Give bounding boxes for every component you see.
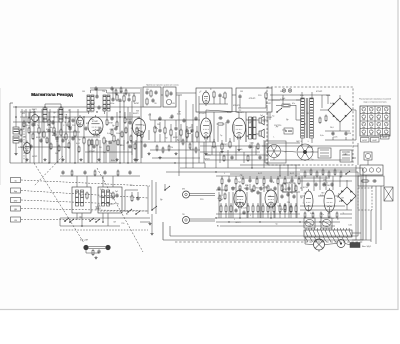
tube V6 small [166, 99, 171, 104]
output transformer Tr2 [249, 117, 257, 139]
label [22, 113, 26, 115]
wire: rec rails [216, 190, 300, 214]
capacitors group recamp extra [250, 188, 295, 199]
resistor R5 [60, 129, 62, 137]
node: antenna top [15, 116, 17, 118]
svg-text:6И1П: 6И1П [362, 140, 367, 142]
label 6И1П [88, 112, 94, 114]
wire: rail y165 seg [240, 164, 300, 166]
wire: main ground bus y163 [10, 162, 205, 164]
wire: right verticals [361, 186, 381, 244]
wire: left comb verticals 2 [88, 140, 136, 163]
svg-text:100к: 100к [48, 127, 52, 129]
label Вкл [362, 246, 372, 248]
wire: box links [161, 94, 182, 96]
resistor R24 [154, 126, 156, 134]
antenna coil L1 [13, 121, 19, 152]
wire: left drops to bus [39, 133, 84, 163]
svg-text:1М: 1М [240, 91, 243, 93]
resistors group bias band [304, 169, 342, 178]
ground g11 [148, 222, 151, 225]
wire: box D to psu [272, 99, 280, 101]
capacitor C25 [248, 144, 251, 149]
resistor R18 [150, 90, 152, 98]
switch contact S5 [151, 206, 157, 211]
wire: connector dashed fan 1 [21, 180, 150, 186]
svg-text:47к: 47к [155, 128, 158, 130]
resistor R25 [164, 127, 166, 135]
component box [358, 176, 384, 186]
connector socket Зв [11, 178, 21, 183]
wire: out drops extra [210, 120, 246, 142]
switch contact S7 [345, 171, 350, 175]
wire: switch verticals [148, 180, 165, 214]
wire: rail y174 seg [230, 173, 300, 175]
wire: ladder bottoms [155, 132, 197, 142]
wire: to gnd [151, 214, 153, 232]
wire: long dashed y211 [100, 210, 148, 212]
wire: diagonal dash C [34, 156, 63, 186]
resistor R16 [136, 127, 138, 135]
capacitor C7 [127, 97, 130, 102]
capacitor C1 [19, 138, 22, 143]
label [290, 173, 295, 175]
resistor R34 [92, 249, 94, 256]
resistor R27 [180, 129, 182, 137]
tube V7 oscillator [202, 90, 209, 104]
resistor R2 [38, 127, 40, 135]
resistor R7 [74, 130, 76, 138]
capacitor C24 [242, 210, 245, 215]
wire: ladder tops [155, 120, 197, 132]
wire: psu->recamp verticals [280, 165, 296, 176]
wire: trafo leads [296, 92, 312, 146]
capacitors group topband [94, 86, 114, 110]
svg-text:6П14П: 6П14П [255, 188, 262, 190]
capacitor C6 [118, 98, 121, 103]
svg-text:10н: 10н [323, 184, 326, 186]
wire: switch area rails [60, 218, 150, 230]
tube V4 6И1П converter [88, 115, 103, 137]
fuse Пр1 [276, 104, 296, 107]
capacitor C18 [218, 116, 223, 119]
capacitor C12 [169, 91, 172, 96]
resistor R26 [170, 129, 172, 137]
svg-text:6П14П: 6П14П [199, 113, 206, 115]
IF can L3 [59, 108, 63, 122]
svg-text:6К4П: 6К4П [32, 109, 37, 111]
svg-text:6И1П: 6И1П [96, 208, 102, 210]
wire: v-drop osc to rail [214, 112, 270, 142]
wire: link y160 right [205, 159, 268, 161]
switch contact S1 [64, 218, 69, 222]
resistor R22 [224, 92, 226, 100]
label value [78, 139, 81, 141]
wire: antenna feed [15, 107, 17, 121]
svg-text:БЛГ-24Н: БЛГ-24Н [80, 240, 89, 242]
wire: converter drops [89, 141, 114, 163]
resistor R4 [53, 127, 55, 135]
switch block with coils L8 L9 [98, 187, 122, 213]
label value [52, 135, 55, 137]
value labels scatter [30, 95, 335, 219]
svg-text:100к: 100к [277, 205, 281, 207]
svg-text:вид со стороны монтажа: вид со стороны монтажа [364, 102, 388, 104]
svg-text:1М: 1М [120, 91, 123, 93]
record amp cathode resistors group [220, 203, 297, 218]
ground g5 [174, 152, 177, 155]
svg-text:6П14П: 6П14П [249, 98, 256, 100]
jack МЗ [182, 189, 190, 199]
wire: rec amp top bus [216, 175, 360, 177]
svg-text:6П14П: 6П14П [270, 204, 277, 206]
label [157, 124, 160, 126]
wire: diagonal dash A [34, 163, 84, 243]
resistor R8 [83, 137, 85, 145]
socket pin diagrams [362, 107, 388, 135]
svg-text:1М: 1М [148, 114, 151, 116]
svg-text:ЭДГ-1: ЭДГ-1 [296, 141, 302, 143]
wire: left mid verticals [39, 117, 84, 138]
label value [47, 125, 52, 127]
ground: antenna [14, 152, 17, 155]
label [190, 127, 192, 129]
wire: rail y176 switchtop [60, 175, 140, 177]
wire: box D wiring [238, 98, 268, 108]
speaker Гр2 [259, 129, 264, 138]
terminal strip extra hatch [305, 237, 349, 242]
tube V1 (input) [23, 141, 30, 154]
wire: bias band bus [300, 170, 356, 181]
resistor R23 [265, 92, 267, 100]
capacitors group bias band [306, 182, 333, 187]
table footer box 2 [371, 138, 380, 143]
value labels speckle [23, 109, 353, 228]
wire: bus y142 [130, 141, 215, 143]
resistor R31 [213, 141, 215, 149]
svg-text:Вкл ЭД-1: Вкл ЭД-1 [362, 246, 372, 248]
transformer core [306, 98, 308, 138]
svg-text:6Е1П: 6Е1П [382, 137, 387, 139]
wire: psu to amp [262, 120, 268, 146]
ground g3 [147, 152, 150, 155]
ground g4 [158, 156, 161, 159]
svg-text:1М: 1М [23, 137, 26, 139]
resistors group left extra [28, 127, 136, 154]
svg-text:Пр1: Пр1 [282, 98, 285, 100]
resistors group topband [115, 87, 127, 96]
svg-text:100к: 100к [326, 95, 330, 97]
erase head ГС [83, 245, 110, 250]
capacitor C17 [190, 128, 193, 133]
svg-text:1М: 1М [280, 91, 283, 93]
small transformer box [283, 183, 295, 192]
wire: rail y132 left [30, 131, 80, 133]
svg-text:5,6к: 5,6к [100, 189, 104, 191]
terminal strip [304, 228, 352, 237]
svg-text:6К4П: 6К4П [90, 103, 95, 105]
wire: connector dashed fan 5 [21, 219, 100, 221]
wire: diagonal dash B [97, 168, 143, 252]
wire: right lower horiz [300, 188, 345, 206]
label [303, 187, 309, 189]
svg-text:6К4П: 6К4П [36, 137, 41, 139]
label [258, 173, 263, 175]
ground g2 [135, 158, 138, 161]
motor M1 enclosure [265, 141, 286, 163]
resistor R19 [146, 98, 148, 106]
chassis outline inner [170, 172, 358, 236]
resistor R15 [133, 95, 135, 103]
resistor R37 [325, 115, 327, 123]
wire: bus y152 out [200, 151, 260, 153]
wire: right links top [366, 160, 372, 188]
label Гр [260, 115, 264, 117]
svg-text:5,6к: 5,6к [320, 135, 324, 137]
wire: long verticals mid [141, 87, 199, 176]
parts row above switch blocks [61, 170, 131, 177]
svg-text:100к: 100к [110, 103, 114, 105]
resistor R14 [123, 95, 125, 103]
labels top band [82, 89, 347, 121]
svg-text:6П14П: 6П14П [316, 91, 323, 93]
resistors capacitors gap fill left [23, 116, 132, 128]
resistor R32 [221, 143, 223, 151]
tube V3 triode [77, 115, 84, 127]
connector socket ДВ [11, 206, 21, 211]
resistor R1 [20, 129, 22, 137]
label tube V10 [231, 188, 237, 190]
label [173, 137, 178, 139]
resistor R20 [166, 90, 168, 98]
wire: out drops [206, 138, 239, 152]
resistor R12 [113, 135, 115, 143]
jack panel [360, 165, 383, 175]
wire: rail y172 [166, 171, 358, 173]
resistor R11 [103, 137, 105, 145]
svg-text:6П14П: 6П14П [99, 196, 106, 198]
resistor R28 [186, 131, 188, 139]
lamp Л2 [288, 89, 292, 93]
wire: rail y150 mid [150, 149, 200, 151]
label [270, 204, 277, 206]
wire: right long verticals full [356, 165, 366, 240]
svg-text:6П14П: 6П14П [92, 121, 99, 123]
svg-text:47к: 47к [321, 214, 324, 216]
svg-text:1М: 1М [323, 179, 326, 181]
resistor R9 [88, 139, 90, 147]
wire: if tube drops [137, 130, 149, 158]
power transformer Tr3 primary [301, 98, 305, 138]
resistor R29 [196, 131, 198, 139]
ground g10 [94, 256, 97, 259]
caption: socket table [359, 98, 391, 104]
resistor R35 [257, 143, 259, 151]
node junction [119, 116, 129, 143]
label [250, 215, 252, 217]
motor M1 flywheel [268, 145, 281, 158]
label value [37, 125, 40, 127]
wire: rail y168 [180, 167, 363, 169]
labels left extra [18, 123, 139, 149]
wire: block drops [60, 213, 120, 226]
capacitor C26 [136, 196, 139, 201]
capacitor C21 filter [344, 131, 347, 136]
capacitor C9 [145, 90, 148, 95]
capacitor C5 [108, 140, 111, 145]
switch contact S8 [127, 209, 132, 213]
capacitor C4 [68, 126, 71, 131]
wire: psu top bus [270, 94, 330, 96]
tube V11 record amp [265, 188, 277, 209]
svg-text:6И1П: 6И1П [134, 103, 140, 105]
switch dark box [350, 243, 360, 248]
ground g7 [220, 150, 223, 153]
IF can L2 [43, 108, 47, 122]
capacitor C2 [47, 128, 50, 133]
wire: rec rails extension [300, 210, 352, 218]
label value [68, 140, 70, 142]
svg-text:ДВ: ДВ [14, 209, 17, 211]
power unit dashed border [267, 87, 353, 165]
capacitor C22 [97, 249, 100, 254]
wire: bottom right wiring [305, 237, 350, 252]
resistor R38 [131, 195, 133, 203]
wire: dashed bottom rail [175, 241, 363, 243]
svg-text:100к: 100к [65, 118, 69, 120]
resistor R3 [43, 131, 45, 139]
relay box [318, 148, 331, 158]
switch contact S6 [164, 186, 170, 191]
svg-text:6П14П: 6П14П [126, 119, 133, 121]
label 50мкф [330, 127, 334, 129]
tube V10 record amp [234, 188, 246, 209]
IF can pair L4 [87, 95, 94, 111]
label [234, 219, 236, 221]
wire: rail y178 seg [240, 177, 330, 179]
label value [72, 125, 76, 127]
wire: rail y152 left [85, 151, 132, 153]
wire: vertical x268 [267, 112, 269, 165]
label [99, 147, 102, 149]
wire: h-link y155 [152, 157, 200, 159]
label 220в [274, 125, 282, 127]
wire: mid top bus [150, 113, 200, 120]
wire: rail y147 left [20, 146, 70, 148]
bridge rectifier small [338, 187, 356, 205]
svg-text:1М: 1М [82, 91, 85, 93]
svg-text:100к: 100к [177, 114, 181, 116]
capacitor C16 [174, 126, 177, 131]
label [199, 92, 201, 94]
lamp Л1 [282, 89, 286, 93]
tube V12 [304, 189, 313, 211]
ground g8 [237, 148, 240, 151]
resistor R6 [65, 133, 67, 141]
wire: recamp verticals extra [222, 184, 292, 203]
switch contact S2 [69, 219, 74, 223]
speaker Гр1 [259, 116, 264, 125]
svg-text:6П14П: 6П14П [18, 129, 25, 131]
power transformer Tr3 secondary [310, 98, 314, 138]
node dots [64, 220, 104, 227]
switch block with coils L6 L7 [72, 187, 91, 213]
switch contact S9 [135, 211, 140, 215]
svg-text:СВ: СВ [14, 220, 18, 222]
label 6П14П b [233, 105, 240, 107]
svg-text:6П14П: 6П14П [89, 151, 96, 153]
wire: verticals between sections [204, 140, 264, 168]
record amp input row (R/C group) [221, 176, 300, 185]
svg-text:47к: 47к [46, 129, 49, 131]
wire: rail y122 left [13, 121, 60, 123]
wire: vertical x205 drop [204, 163, 206, 168]
capacitors group mid extra [158, 114, 197, 123]
switch contact S3 [89, 218, 94, 222]
resistor R30 [217, 123, 225, 125]
tube V2 small [32, 111, 39, 126]
wire: rec amp mid bus [216, 218, 340, 226]
unit box C (oscillator) [196, 88, 232, 112]
svg-text:МФ: МФ [14, 199, 18, 202]
resistors capacitors mid gap [223, 155, 262, 163]
potentiometer R39 volume [186, 129, 192, 139]
table footer box 1 [361, 138, 370, 143]
capacitor C11 [151, 98, 154, 103]
label 6К4П [133, 113, 139, 115]
svg-text:20,0: 20,0 [330, 127, 334, 129]
motor M2 ЭДГ [297, 144, 313, 160]
svg-text:10н: 10н [244, 188, 247, 190]
capacitor C15 [158, 128, 161, 133]
label АПЧ [249, 98, 256, 100]
wire: left section left border [10, 103, 13, 163]
svg-text:6П14П: 6П14П [237, 112, 244, 114]
svg-text:5,6к: 5,6к [300, 95, 304, 97]
svg-text:6К4П: 6К4П [110, 129, 115, 131]
resistor R10 [96, 139, 98, 147]
svg-text:6П14П: 6П14П [222, 144, 229, 146]
capacitor C23 [234, 208, 237, 213]
label header tiny [146, 85, 180, 87]
svg-text:Магнитола Рекорд: Магнитола Рекорд [31, 92, 73, 97]
svg-text:6И1П: 6И1П [18, 147, 24, 149]
title text: Магнитола Рекорд [31, 92, 73, 97]
capacitor block [340, 150, 352, 162]
ground g6 [204, 152, 207, 155]
wire: right link x358 [357, 143, 359, 165]
wire: head wiring [86, 250, 99, 253]
switch contact S4 [95, 219, 100, 223]
svg-text:6П14П: 6П14П [233, 105, 240, 107]
capacitor C14 [238, 94, 241, 99]
page edge left faint [0, 88, 2, 185]
svg-text:47к: 47к [292, 103, 295, 105]
capacitor C8 [143, 143, 146, 148]
unit box B [163, 87, 176, 107]
capacitor C3 [55, 136, 58, 141]
svg-text:10н: 10н [26, 125, 29, 127]
rectifier can 1 [304, 218, 315, 228]
voltage selector [284, 128, 293, 134]
label [325, 185, 331, 187]
wire: rec verticals [229, 192, 271, 218]
tube V13 [324, 188, 335, 212]
label value [63, 125, 65, 127]
svg-text:6И1П: 6И1П [32, 156, 38, 158]
wire: motor wiring [281, 151, 318, 152]
wire: bus y117 left [20, 116, 140, 118]
